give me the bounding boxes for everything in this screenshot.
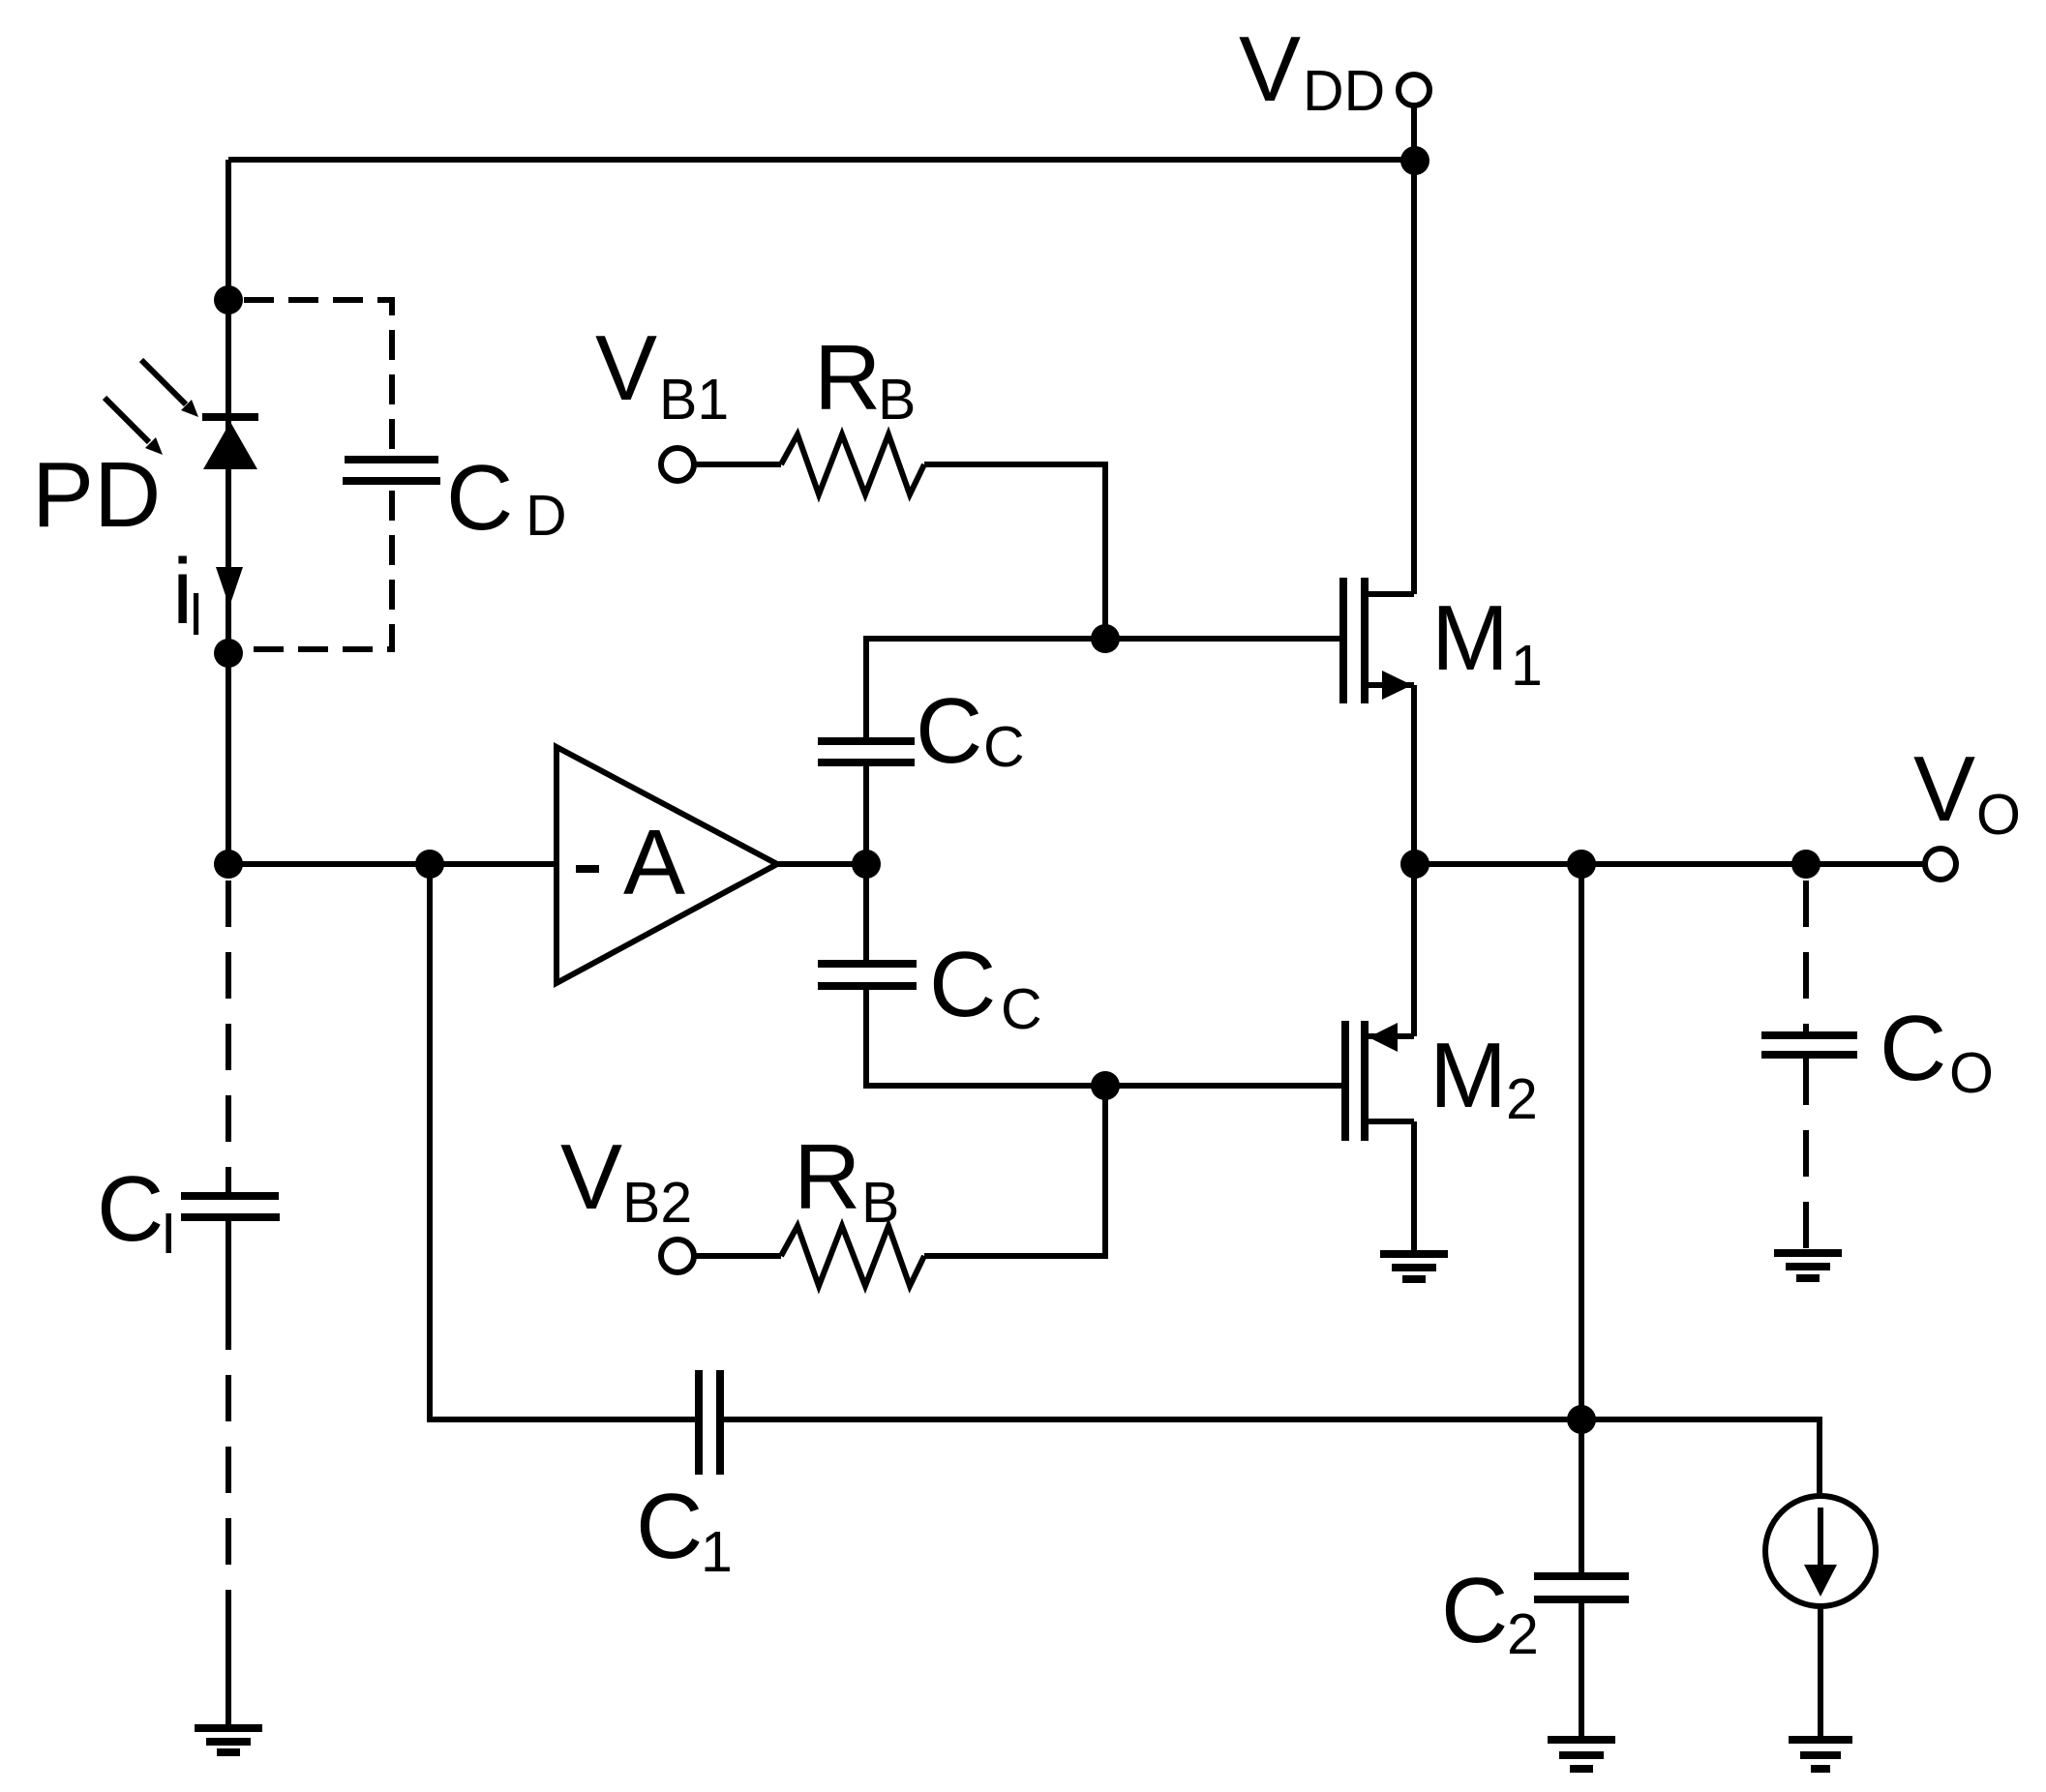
svg-text:C: C: [983, 715, 1025, 779]
node amp output: [852, 850, 881, 879]
svg-text:C: C: [929, 933, 996, 1036]
terminal V_O: [1925, 849, 1956, 880]
node input: [214, 850, 243, 879]
node output Co branch: [1791, 850, 1820, 879]
svg-text:C: C: [1880, 997, 1946, 1100]
svg-text:M: M: [1431, 586, 1509, 690]
terminal V_B2: [661, 1239, 694, 1272]
capacitor C_C bottom: [818, 964, 917, 986]
svg-text:M: M: [1429, 1024, 1507, 1127]
wire left rail: [226, 160, 231, 864]
wire V_B2 to R_B: [694, 1253, 781, 1259]
op-amp A: [557, 747, 777, 983]
node PD top: [214, 285, 243, 314]
node VDD: [1400, 146, 1429, 175]
wire C_I dashed lower: [226, 1221, 231, 1725]
label i_l: [172, 540, 202, 647]
svg-text:1: 1: [1511, 634, 1543, 698]
svg-text:C: C: [97, 1157, 164, 1261]
wire VDD to M1 drain: [1411, 161, 1417, 594]
ground C2: [1548, 1740, 1615, 1769]
label M2: [1429, 1024, 1538, 1131]
svg-text:1: 1: [701, 1520, 733, 1584]
wire top rail: [228, 157, 1415, 163]
wire current source to ground: [1818, 1606, 1823, 1737]
wire output: [1414, 861, 1925, 867]
label C_C bottom: [929, 933, 1042, 1041]
svg-text:A: A: [623, 811, 685, 914]
wire Cc bottom to M2 gate node: [866, 986, 1105, 1086]
wire C_O dashed upper: [1803, 881, 1809, 1031]
wire M1 gate: [1105, 636, 1339, 642]
svg-text:C: C: [636, 1475, 703, 1578]
capacitor C2: [1534, 1576, 1629, 1599]
label C_O: [1880, 997, 1994, 1105]
svg-text:V: V: [560, 1125, 622, 1229]
node M1 gate: [1091, 624, 1120, 653]
capacitor C_I: [181, 1196, 280, 1217]
label C1: [636, 1475, 733, 1584]
node PD bottom: [214, 639, 243, 668]
transistor M1: [1343, 578, 1414, 703]
label PD: [32, 443, 161, 547]
svg-text:2: 2: [1506, 1067, 1538, 1131]
capacitor C_D: [343, 460, 440, 481]
svg-text:O: O: [1949, 1041, 1994, 1105]
ground C_O: [1774, 1253, 1842, 1278]
wire V_B1 to R_B: [694, 462, 781, 467]
terminal V_DD: [1399, 75, 1429, 105]
svg-text:V: V: [595, 316, 657, 420]
wire M2 drain to ground: [1411, 1121, 1417, 1251]
wire C2 to ground: [1579, 1599, 1584, 1737]
label V_O: [1913, 737, 2021, 847]
label C2: [1441, 1559, 1539, 1666]
photodiode PD: [105, 360, 258, 469]
wire V_B2 to M2 gate node: [924, 1086, 1105, 1256]
svg-text:D: D: [526, 484, 567, 548]
svg-text:C: C: [916, 679, 982, 783]
wire Cc upper mid: [863, 762, 869, 864]
capacitor C_C top: [818, 741, 915, 762]
dashed box C_D: [244, 300, 392, 649]
current source: [1765, 1496, 1876, 1606]
wire M2 top: [1411, 864, 1417, 1036]
wire R_B to M1 gate node: [924, 464, 1105, 639]
svg-text:B: B: [878, 368, 916, 432]
node M2 gate: [1091, 1071, 1120, 1100]
ground C_I: [195, 1728, 262, 1752]
label R_B top: [814, 326, 916, 432]
label V_B2: [560, 1125, 692, 1235]
svg-text:R: R: [794, 1125, 860, 1229]
capacitor C_O: [1761, 1035, 1857, 1055]
node output C2 branch: [1567, 850, 1596, 879]
svg-text:PD: PD: [32, 443, 161, 547]
label V_B1: [595, 316, 729, 432]
wire amp output: [777, 861, 866, 867]
wire output to bottom node: [1579, 864, 1584, 1419]
svg-text:2: 2: [1507, 1602, 1539, 1666]
wire M1 source to output: [1411, 685, 1417, 864]
svg-text:l: l: [190, 583, 202, 647]
svg-text:C: C: [1001, 977, 1042, 1041]
node output M1: [1400, 850, 1429, 879]
wire Cc top to M1 gate node: [866, 639, 1105, 745]
svg-text:C: C: [446, 446, 513, 550]
svg-text:DD: DD: [1303, 59, 1385, 123]
wire input: [228, 861, 557, 867]
label V_DD: [1239, 17, 1385, 123]
svg-text:V: V: [1239, 17, 1301, 121]
wire C_O dashed lower: [1803, 1059, 1809, 1250]
node bottom: [1567, 1405, 1596, 1434]
label C_D: [446, 446, 567, 550]
terminal V_B1: [661, 448, 694, 481]
svg-text:B2: B2: [622, 1171, 692, 1235]
resistor R_B bottom: [781, 1226, 924, 1286]
svg-text:I: I: [161, 1202, 176, 1266]
label M1: [1431, 586, 1543, 698]
wire C1 to bottom node: [724, 1417, 1581, 1422]
wire input node to C1: [430, 864, 695, 1419]
capacitor C1: [699, 1370, 720, 1475]
label C_C top: [916, 679, 1025, 783]
label R_B bottom: [794, 1125, 899, 1235]
svg-text:B: B: [861, 1171, 899, 1235]
wire C_I dashed upper: [226, 881, 231, 1192]
wire M2 gate: [1105, 1083, 1341, 1089]
svg-text:R: R: [814, 326, 881, 430]
node input branch C1: [415, 850, 444, 879]
transistor M2: [1345, 1021, 1414, 1141]
svg-text:O: O: [1976, 783, 2021, 847]
wire Cc lower mid: [863, 864, 869, 964]
wire bottom node to current source: [1581, 1419, 1820, 1496]
wire bottom node to C2: [1579, 1419, 1584, 1576]
label C_I: [97, 1157, 176, 1266]
svg-text:V: V: [1913, 737, 1975, 841]
ground current source: [1789, 1740, 1852, 1769]
svg-text:B1: B1: [659, 368, 729, 432]
resistor R_B top: [781, 434, 924, 494]
current arrow i_l: [216, 567, 243, 607]
wire VDD terminal: [1411, 105, 1417, 161]
svg-text:C: C: [1441, 1559, 1508, 1662]
ground M2: [1380, 1254, 1448, 1279]
